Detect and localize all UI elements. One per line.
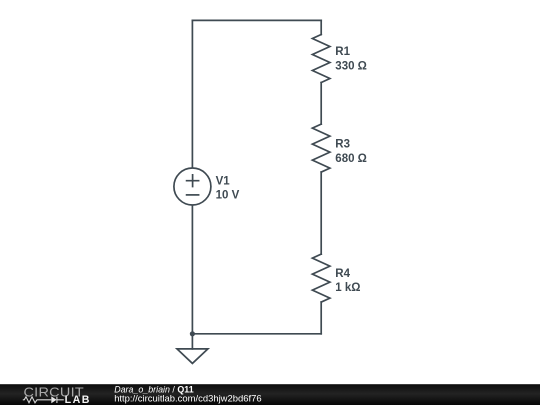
- wire top (node V1+ to R1 top): [192, 19, 321, 21]
- logo resistor zigzag: [23, 397, 52, 403]
- svg-text:V1: V1: [216, 176, 231, 188]
- svg-text:R3: R3: [335, 139, 350, 151]
- wire V1 bottom lead: [191, 205, 193, 334]
- svg-text:R4: R4: [335, 268, 350, 280]
- V1 plus sign: [187, 175, 199, 187]
- wire R1 top lead: [320, 20, 322, 34]
- wire R1 bottom to R3 top: [320, 83, 322, 125]
- svg-text:330 Ω: 330 Ω: [335, 60, 367, 72]
- wire bottom (R4 to ground node): [192, 333, 321, 335]
- V1 minus sign: [187, 194, 199, 196]
- svg-text:R1: R1: [335, 46, 350, 58]
- ground symbol triangle: [177, 349, 208, 364]
- wire R4 bottom lead: [320, 302, 322, 334]
- footer bar: [0, 384, 540, 405]
- wire R3 bottom to R4 top: [320, 172, 322, 254]
- voltage source V1 circle: [174, 168, 211, 205]
- svg-text:10 V: 10 V: [216, 189, 240, 201]
- logo diode wire: [57, 397, 64, 403]
- svg-text:1 kΩ: 1 kΩ: [335, 282, 360, 294]
- svg-text:680 Ω: 680 Ω: [335, 153, 367, 165]
- svg-text:http://circuitlab.com/cd3hjw2b: http://circuitlab.com/cd3hjw2bd6f76: [114, 393, 261, 404]
- resistor R3: [312, 124, 330, 172]
- resistor R4: [312, 254, 330, 302]
- ground stem wire: [191, 334, 193, 349]
- svg-text:LAB: LAB: [65, 394, 91, 405]
- node junction dot: [190, 331, 195, 336]
- wire V1 top lead: [191, 20, 193, 168]
- logo diode triangle: [51, 396, 56, 403]
- resistor R1: [312, 35, 330, 83]
